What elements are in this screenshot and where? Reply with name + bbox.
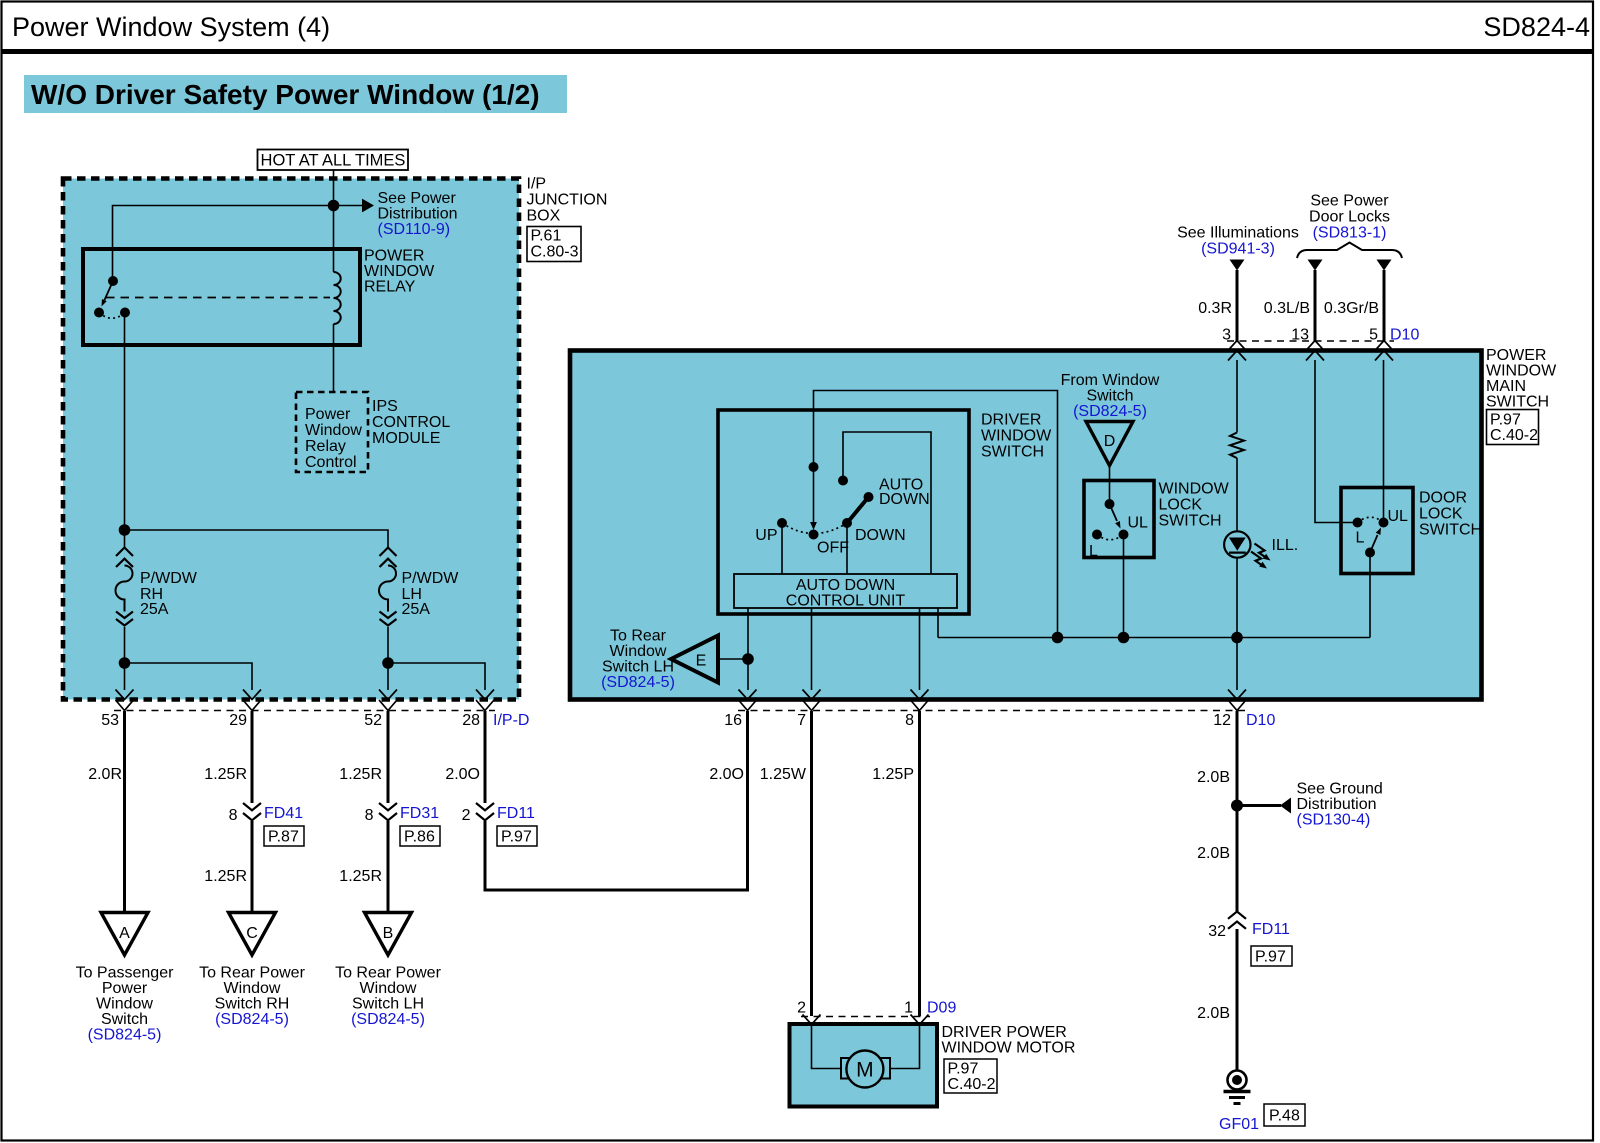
wire: pin 13 to L contact (1315, 360, 1358, 523)
relay contact travel (dotted) (99, 313, 125, 319)
svg-text:L: L (1356, 530, 1365, 547)
svg-text:2.0B: 2.0B (1197, 769, 1230, 786)
label WINDOW LOCK SWITCH (1159, 481, 1230, 530)
svg-text:See Ground: See Ground (1297, 781, 1383, 798)
label ILL. (1272, 537, 1299, 554)
wire: resistor to LED (1236, 458, 1238, 531)
label 0.3L/B (1264, 300, 1310, 317)
svg-text:16: 16 (724, 712, 742, 729)
svg-text:LOCK: LOCK (1159, 497, 1203, 514)
svg-text:D09: D09 (927, 1000, 956, 1017)
svg-text:C.40-2: C.40-2 (948, 1076, 996, 1093)
svg-text:P.48: P.48 (1269, 1108, 1300, 1125)
door lock switch box (1341, 488, 1413, 574)
svg-text:2.0O: 2.0O (445, 766, 480, 783)
feed arrow (door locks 5) (1377, 260, 1392, 271)
motor brush tab right (881, 1058, 890, 1079)
wire 2.0R to triangle A (123, 711, 126, 913)
svg-text:1.25R: 1.25R (204, 766, 247, 783)
pin 53 (101, 712, 119, 729)
svg-text:WINDOW: WINDOW (981, 428, 1052, 445)
label DRIVER WINDOW SWITCH (981, 412, 1052, 461)
HOT AT ALL TIMES tag (258, 150, 409, 171)
svg-text:Window: Window (305, 422, 362, 439)
page ref P.97 (FD11) (497, 826, 537, 846)
junction ground distribution (1231, 800, 1243, 812)
wire: RH fuse to pin 53 (124, 627, 126, 690)
connector line D10 (bottom) (738, 710, 1247, 712)
wire: battery feed from HOT AT ALL TIMES (333, 170, 335, 272)
svg-text:Switch RH: Switch RH (215, 996, 290, 1013)
svg-text:See Illuminations: See Illuminations (1177, 225, 1299, 242)
connector line D10 (top) (1227, 340, 1394, 342)
svg-text:D: D (1104, 433, 1116, 450)
label To Passenger Power Window Switch (76, 965, 175, 1044)
switch arm auto-down (847, 497, 869, 523)
svg-text:0.3L/B: 0.3L/B (1264, 300, 1310, 317)
svg-text:DRIVER POWER: DRIVER POWER (942, 1024, 1067, 1041)
pin 3 (1222, 327, 1231, 344)
svg-text:WINDOW: WINDOW (364, 263, 435, 280)
label D10 (top) (1390, 327, 1419, 344)
label See Power Distribution (SD110-9) (378, 190, 458, 238)
svg-text:P.97: P.97 (1255, 949, 1286, 966)
label I/P-D (493, 712, 529, 729)
svg-text:0.3Gr/B: 0.3Gr/B (1324, 300, 1379, 317)
crossing pin 8 (911, 690, 929, 711)
svg-text:Power: Power (102, 980, 148, 997)
title separator line (2, 49, 1594, 54)
svg-text:13: 13 (1291, 327, 1309, 344)
label GF01 (1219, 1116, 1259, 1133)
svg-text:P.61: P.61 (531, 228, 562, 245)
svg-text:Door Locks: Door Locks (1309, 209, 1390, 226)
ground symbol GF01 (1224, 1071, 1251, 1104)
svg-text:WINDOW: WINDOW (1486, 363, 1557, 380)
window lock switch box (1084, 481, 1154, 558)
svg-text:From Window: From Window (1061, 372, 1160, 389)
svg-text:29: 29 (229, 712, 247, 729)
svg-text:C.40-2: C.40-2 (1490, 427, 1538, 444)
wire: DOWN contact to control unit (846, 523, 848, 574)
driver window switch box (718, 410, 969, 614)
motor M symbol (846, 1051, 883, 1088)
svg-text:See Power: See Power (1310, 193, 1389, 210)
svg-text:UL: UL (1388, 508, 1409, 525)
svg-text:25A: 25A (402, 601, 431, 618)
svg-text:WINDOW MOTOR: WINDOW MOTOR (942, 1040, 1076, 1057)
wire 1.25P (918, 711, 921, 1016)
label See Ground Distribution (SD130-4) (1297, 781, 1383, 829)
svg-text:HOT AT ALL TIMES: HOT AT ALL TIMES (261, 152, 406, 170)
page ref P.87 (264, 826, 304, 846)
pin 16 (724, 712, 742, 729)
label DRIVER POWER WINDOW MOTOR (942, 1024, 1076, 1057)
svg-text:8: 8 (365, 807, 374, 824)
svg-text:SWITCH: SWITCH (1419, 522, 1482, 539)
svg-text:P.97: P.97 (1490, 412, 1521, 429)
door lock travel (dotted) (1358, 517, 1384, 522)
wire: pin 5 to UL contact (1383, 360, 1385, 523)
svg-text:(SD824-5): (SD824-5) (88, 1027, 162, 1044)
relay mechanical link (dashed) (106, 297, 330, 299)
junction below LH fuse (382, 657, 394, 669)
svg-text:POWER: POWER (364, 248, 424, 265)
svg-text:CONTROL UNIT: CONTROL UNIT (786, 593, 906, 610)
svg-text:I/P-D: I/P-D (493, 712, 529, 729)
wire: relay contact to fuse rail (124, 313, 126, 549)
label I/P JUNCTION BOX (527, 176, 608, 225)
svg-text:1.25R: 1.25R (339, 766, 382, 783)
svg-text:LOCK: LOCK (1419, 506, 1463, 523)
brace over door lock feeds (1297, 243, 1402, 259)
label D09 (927, 1000, 956, 1017)
connector FD41 pin 8 (243, 803, 261, 820)
svg-text:E: E (696, 653, 707, 670)
label 2.0O (pin 16) (709, 766, 744, 783)
svg-text:(SD824-5): (SD824-5) (215, 1011, 289, 1028)
triangle D (From Window Switch) (1086, 422, 1133, 466)
pin 8 of FD31 (365, 807, 374, 824)
svg-text:(SD813-1): (SD813-1) (1313, 225, 1387, 242)
svg-text:To Passenger: To Passenger (76, 965, 175, 982)
svg-text:To Rear Power: To Rear Power (335, 965, 441, 982)
page title (12, 12, 330, 42)
junction: power distribution node (328, 200, 340, 212)
common rail (938, 637, 1370, 639)
power window relay box (83, 249, 360, 345)
wire 1.25R pin29 to FD41 (251, 711, 254, 803)
svg-text:IPS: IPS (372, 398, 398, 415)
label 1.25P (872, 766, 914, 783)
wire: door lock pivot to rail (1369, 553, 1371, 638)
svg-text:ILL.: ILL. (1272, 537, 1299, 554)
crossing pin 16 (739, 690, 757, 711)
svg-text:P.87: P.87 (268, 829, 299, 846)
connector crossing pin 29 (243, 690, 261, 711)
svg-text:To Rear: To Rear (610, 628, 667, 645)
svg-text:FD31: FD31 (400, 805, 439, 822)
label 1.25R (to B) (339, 868, 382, 885)
wire 2.0B pin12 to FD11 (1236, 711, 1239, 912)
pin 5 (1369, 327, 1378, 344)
label See Illuminations (SD941-3) (1177, 225, 1299, 258)
label 0.3R (1198, 300, 1232, 317)
svg-text:Switch: Switch (1086, 388, 1133, 405)
wire 0.3L/B (1314, 270, 1317, 341)
svg-text:(SD941-3): (SD941-3) (1201, 241, 1275, 258)
svg-text:2.0B: 2.0B (1197, 845, 1230, 862)
I/P junction box (dashed) (63, 179, 519, 700)
contact OFF (809, 530, 819, 540)
wire: rail to pin 12 (1236, 638, 1238, 691)
window lock travel (dotted) (1097, 535, 1124, 540)
fuse P/WDW LH 25A (379, 548, 397, 626)
svg-text:(SD824-5): (SD824-5) (351, 1011, 425, 1028)
label DOWN (855, 527, 906, 544)
svg-text:UL: UL (1128, 515, 1149, 532)
triangle E (671, 636, 718, 683)
wire: stub to See Power Distribution arrow (334, 205, 363, 207)
label 1.25R (pin 29) (204, 766, 247, 783)
svg-text:Distribution: Distribution (1297, 796, 1377, 813)
svg-text:Switch LH: Switch LH (602, 659, 674, 676)
connector FD31 pin 8 (379, 803, 397, 820)
arrow See Ground Distribution (1280, 798, 1291, 814)
label D10 (bottom) (1246, 712, 1275, 729)
svg-text:Window: Window (610, 643, 667, 660)
svg-text:FD41: FD41 (264, 805, 303, 822)
svg-text:Control: Control (305, 454, 357, 471)
ext triangle C (229, 913, 276, 956)
svg-text:2: 2 (797, 1000, 806, 1017)
svg-text:(SD130-4): (SD130-4) (1297, 812, 1371, 829)
crossing pin 7 (803, 690, 821, 711)
LED ILL (1224, 531, 1270, 568)
page ref P.86 (400, 826, 440, 846)
svg-text:2.0R: 2.0R (88, 766, 122, 783)
svg-text:Window: Window (360, 980, 417, 997)
svg-text:P/WDW: P/WDW (402, 570, 460, 587)
label See Power Door Locks (SD813-1) (1309, 193, 1390, 242)
svg-text:8: 8 (229, 807, 238, 824)
svg-text:C.80-3: C.80-3 (531, 244, 579, 261)
svg-text:P/WDW: P/WDW (140, 570, 198, 587)
svg-text:FD11: FD11 (1252, 921, 1290, 938)
connector crossing pin 52 (379, 690, 397, 711)
page ref box P.61 C.80-3 (527, 227, 581, 262)
svg-text:2: 2 (462, 807, 471, 824)
switch travel (dotted) (782, 523, 847, 534)
connector crossing pin 28 (476, 690, 494, 711)
svg-text:1: 1 (904, 1000, 913, 1017)
crossing motor pin 2 (803, 1015, 821, 1036)
junction rail x1237 (1231, 632, 1243, 644)
wire: D to window lock switch (1109, 466, 1111, 505)
label 2.0B (middle) (1197, 845, 1230, 862)
label L (window lock) (1089, 543, 1098, 560)
junction E branch (742, 653, 754, 665)
wire 0.3R (1236, 270, 1239, 341)
svg-text:C: C (246, 925, 258, 942)
svg-text:Switch LH: Switch LH (352, 996, 424, 1013)
wire: UP contact to control unit (781, 523, 783, 574)
label L (door lock) (1356, 530, 1365, 547)
pin 7 (797, 712, 806, 729)
contact UP (777, 518, 787, 528)
label 1.25W (760, 766, 807, 783)
label UP (755, 527, 777, 544)
svg-text:P.86: P.86 (404, 829, 435, 846)
resistor (illumination) (1230, 433, 1244, 459)
svg-text:WINDOW: WINDOW (1159, 481, 1230, 498)
svg-text:32: 32 (1208, 923, 1226, 940)
svg-text:L: L (1089, 543, 1098, 560)
svg-text:Window: Window (96, 996, 153, 1013)
page ref P.97 (FD11 ground) (1251, 946, 1292, 966)
section header band W/O Driver Safety Power Window (1/2) (24, 75, 567, 113)
pin 2 of FD11 (462, 807, 471, 824)
wire: motor winding right (890, 1024, 920, 1069)
label DOOR LOCK SWITCH (1419, 490, 1482, 539)
svg-text:D10: D10 (1246, 712, 1275, 729)
junction below RH fuse (119, 657, 131, 669)
window lock contact L (1092, 530, 1102, 540)
wire: LED to rail (1236, 558, 1238, 638)
wire: control unit to pin 16 (747, 608, 749, 690)
wire: auto-down sense loop (843, 432, 931, 574)
svg-text:25A: 25A (140, 601, 169, 618)
svg-text:DRIVER: DRIVER (981, 412, 1041, 429)
wire 2.0B FD11 to ground (1236, 929, 1239, 1071)
label FD41 (264, 805, 303, 822)
ext triangle A (101, 913, 148, 956)
connector crossing pin 53 (116, 690, 134, 711)
svg-text:M: M (856, 1059, 874, 1082)
ext triangle B (365, 913, 412, 956)
svg-text:(SD110-9): (SD110-9) (378, 221, 451, 238)
label 1.25R (to C) (204, 868, 247, 885)
svg-text:SWITCH: SWITCH (1159, 513, 1222, 530)
svg-text:(SD824-5): (SD824-5) (601, 674, 675, 691)
svg-text:SWITCH: SWITCH (981, 444, 1044, 461)
svg-text:GF01: GF01 (1219, 1116, 1259, 1133)
page ref box P.97 C.40-2 (motor) (944, 1059, 997, 1093)
driver power window motor box (790, 1024, 938, 1107)
relay common contact (108, 276, 118, 286)
relay coil (334, 272, 341, 324)
label 1.25R (pin 52) (339, 766, 382, 783)
junction rail x1123 (1118, 632, 1130, 644)
crossing pin 12 (1228, 690, 1246, 711)
wire: common wiper (810, 410, 817, 530)
window lock contact UL (1119, 530, 1129, 540)
connector line D09 (801, 1016, 930, 1018)
svg-text:8: 8 (905, 712, 914, 729)
label To Rear Power Window Switch RH (199, 965, 305, 1029)
svg-text:Power Window System (4): Power Window System (4) (12, 12, 330, 42)
svg-text:MODULE: MODULE (372, 430, 440, 447)
wire: LH fuse to pin 52 (387, 627, 389, 690)
svg-text:DOWN: DOWN (879, 491, 930, 508)
wire 1.25R FD41 to triangle C (251, 821, 254, 913)
pin 32 of FD11 (1208, 923, 1226, 940)
svg-text:2.0O: 2.0O (709, 766, 744, 783)
wire 0.3Gr/B (1383, 270, 1386, 341)
power window main switch box (570, 351, 1482, 700)
pin 13 (1291, 327, 1309, 344)
label AUTO DOWN CONTROL UNIT (786, 577, 906, 610)
label To Rear Power Window Switch LH (335, 965, 441, 1029)
junction: fuse feed split (119, 524, 131, 536)
svg-text:Power: Power (305, 406, 351, 423)
svg-text:12: 12 (1213, 712, 1231, 729)
wire: control unit to common rail (937, 608, 939, 638)
wire: stub to ground distribution arrow (1237, 804, 1281, 807)
svg-text:Switch: Switch (101, 1011, 148, 1028)
svg-text:P.97: P.97 (948, 1061, 979, 1078)
svg-text:POWER: POWER (1486, 347, 1546, 364)
crossing pin 13 (1306, 341, 1324, 361)
junction on common wiper (809, 462, 819, 472)
door lock contact UL (1379, 518, 1389, 528)
label P/WDW LH 25A (402, 570, 460, 618)
svg-text:Relay: Relay (305, 438, 346, 455)
wire: switch common feed loop (814, 391, 1058, 638)
auto down control unit box (734, 574, 957, 608)
svg-text:JUNCTION: JUNCTION (527, 192, 608, 209)
connector FD11 pin 32 (1228, 912, 1246, 929)
wire: branch to pin 28 (388, 663, 485, 690)
pin 8 of FD41 (229, 807, 238, 824)
svg-text:B: B (383, 925, 394, 942)
svg-text:RELAY: RELAY (364, 279, 416, 296)
wire: stub to triangle E (718, 658, 748, 660)
label From Window Switch (SD824-5) (1061, 372, 1160, 420)
svg-text:28: 28 (462, 712, 480, 729)
wire 1.25R FD31 to triangle B (387, 821, 390, 913)
svg-text:DOWN: DOWN (855, 527, 906, 544)
feed arrow (illuminations) (1230, 260, 1245, 271)
pin 29 (229, 712, 247, 729)
pin 28 (462, 712, 480, 729)
motor brush tab left (841, 1058, 850, 1079)
page ref box P.97 C.40-2 (main switch) (1487, 410, 1539, 445)
wire 2.0O route to pin 16 (485, 711, 748, 890)
svg-text:P.97: P.97 (501, 829, 532, 846)
svg-text:SWITCH: SWITCH (1486, 394, 1549, 411)
svg-text:BOX: BOX (527, 208, 561, 225)
svg-text:Distribution: Distribution (378, 206, 458, 223)
svg-text:SD824-4: SD824-4 (1483, 12, 1590, 42)
wire: coil to IPS module (333, 324, 335, 392)
label FD11 (ground) (1252, 921, 1290, 938)
svg-text:FD11: FD11 (497, 805, 535, 822)
svg-text:Window: Window (224, 980, 281, 997)
svg-text:UP: UP (755, 527, 777, 544)
crossing pin 5 (1375, 341, 1393, 361)
relay switch arm (102, 281, 114, 307)
connector FD11 pin 2 (476, 803, 494, 820)
wire: relay switch feed (113, 206, 334, 282)
pin 8 (905, 712, 914, 729)
svg-text:7: 7 (797, 712, 806, 729)
feed arrow (door locks 13) (1308, 260, 1323, 271)
wire 1.25R pin52 to FD31 (387, 711, 390, 803)
svg-text:CONTROL: CONTROL (372, 414, 450, 431)
svg-text:DOOR: DOOR (1419, 490, 1467, 507)
svg-text:W/O Driver Safety Power Window: W/O Driver Safety Power Window (1/2) (31, 79, 540, 110)
label FD31 (400, 805, 439, 822)
wire: pin 3 into box (1236, 360, 1238, 433)
svg-text:D10: D10 (1390, 327, 1419, 344)
pin 2 (motor) (797, 1000, 806, 1017)
svg-text:53: 53 (101, 712, 119, 729)
label 2.0B (lower) (1197, 1005, 1230, 1022)
contact AUTO DOWN (864, 492, 874, 502)
svg-text:1.25R: 1.25R (204, 868, 247, 885)
sheet number SD824-4 (1483, 12, 1590, 42)
pin 52 (364, 712, 382, 729)
crossing pin 3 (1228, 341, 1246, 361)
door lock pivot contact (1365, 548, 1375, 558)
svg-text:3: 3 (1222, 327, 1231, 344)
contact DOWN (842, 518, 852, 528)
wire: control unit to pin 7 (811, 608, 813, 690)
wire: feed to LH fuse (125, 530, 389, 548)
relay contact L (94, 308, 104, 318)
label 2.0R (88, 766, 122, 783)
